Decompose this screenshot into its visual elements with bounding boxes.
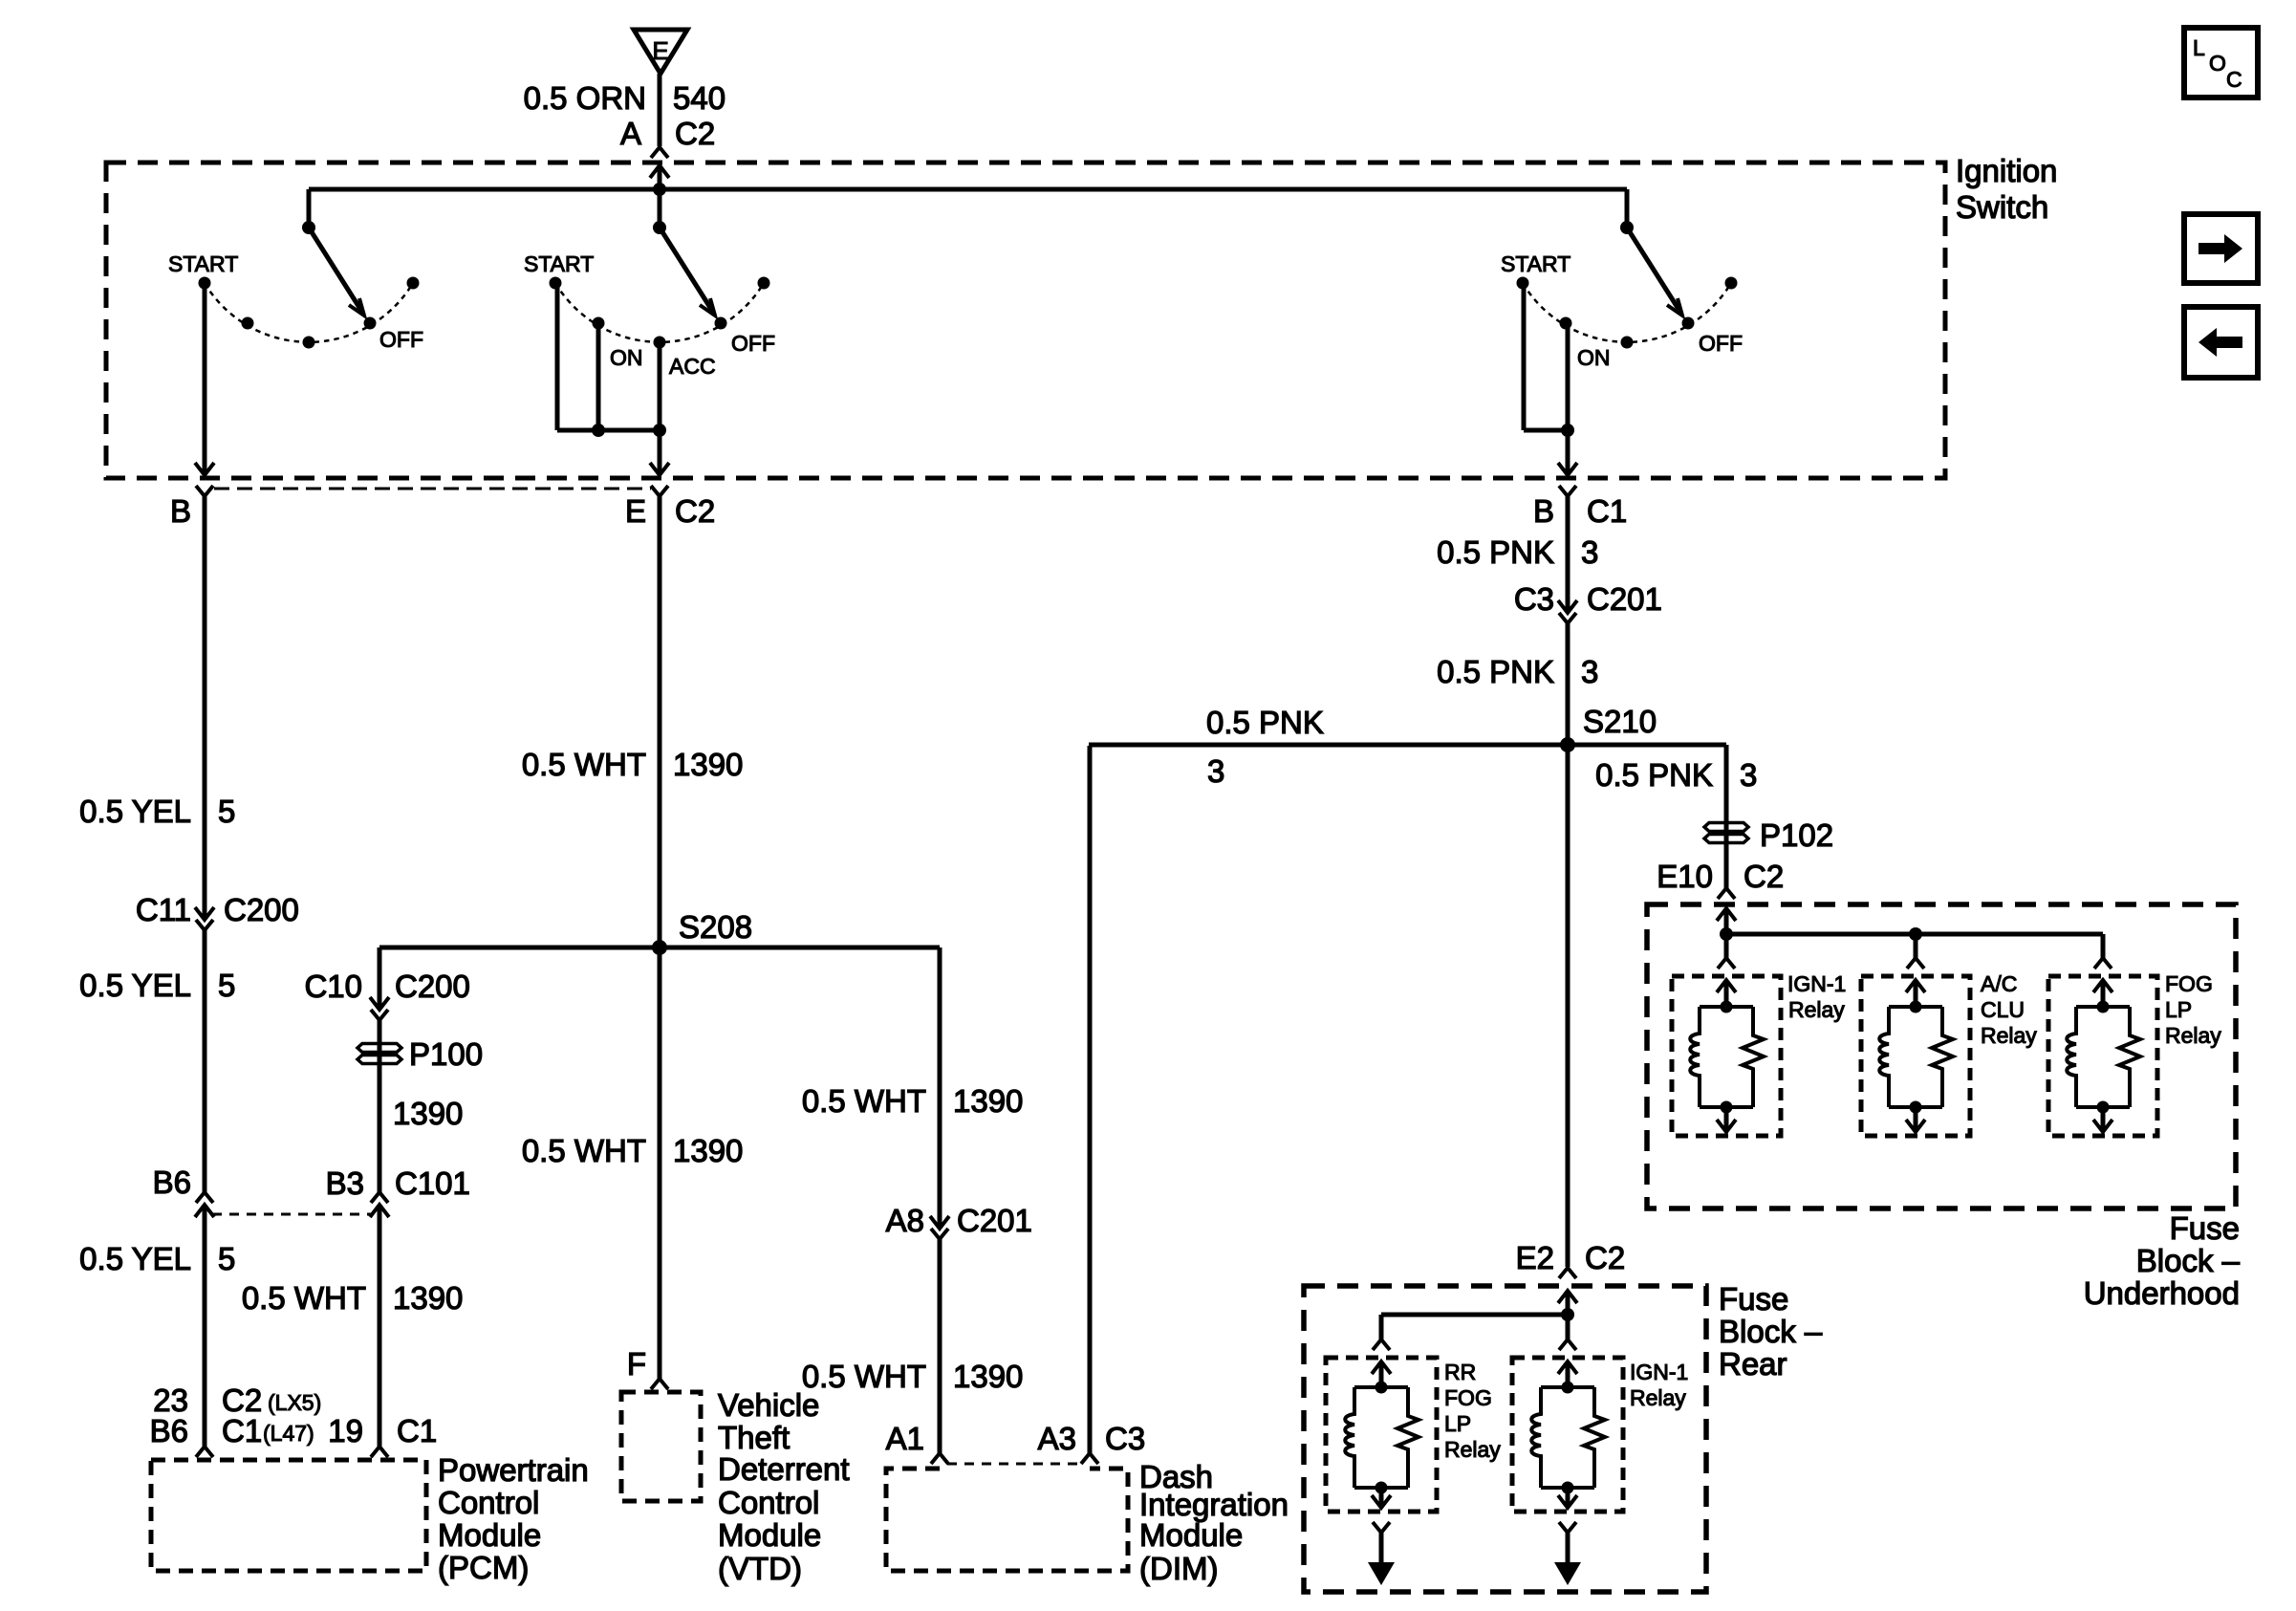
svg-text:Relay: Relay bbox=[1444, 1437, 1501, 1462]
svg-text:S210: S210 bbox=[1583, 704, 1657, 739]
svg-text:0.5 ORN: 0.5 ORN bbox=[524, 80, 646, 116]
svg-text:C1: C1 bbox=[1587, 493, 1627, 529]
svg-text:(PCM): (PCM) bbox=[438, 1550, 529, 1585]
svg-text:Relay: Relay bbox=[1981, 1023, 2037, 1048]
svg-text:19: 19 bbox=[328, 1413, 363, 1448]
svg-text:Ignition: Ignition bbox=[1956, 153, 2057, 188]
svg-text:1390: 1390 bbox=[953, 1083, 1023, 1119]
svg-text:Control: Control bbox=[438, 1485, 539, 1520]
svg-text:540: 540 bbox=[673, 80, 726, 116]
svg-text:P102: P102 bbox=[1760, 817, 1833, 853]
svg-text:IGN-1: IGN-1 bbox=[1630, 1360, 1688, 1384]
svg-text:A8: A8 bbox=[886, 1203, 924, 1238]
svg-text:C2: C2 bbox=[1585, 1240, 1625, 1275]
svg-text:LP: LP bbox=[2165, 997, 2192, 1022]
svg-text:0.5 YEL: 0.5 YEL bbox=[79, 1241, 191, 1276]
svg-text:(DIM): (DIM) bbox=[1139, 1551, 1218, 1586]
svg-text:0.5 WHT: 0.5 WHT bbox=[522, 747, 646, 782]
svg-text:3: 3 bbox=[1207, 753, 1224, 789]
svg-text:5: 5 bbox=[218, 968, 235, 1003]
svg-text:B: B bbox=[170, 493, 191, 529]
svg-text:1390: 1390 bbox=[393, 1280, 463, 1316]
svg-text:0.5 PNK: 0.5 PNK bbox=[1595, 757, 1713, 793]
svg-text:3: 3 bbox=[1740, 757, 1757, 793]
svg-text:0.5 PNK: 0.5 PNK bbox=[1437, 654, 1554, 689]
svg-text:B6: B6 bbox=[153, 1165, 191, 1200]
svg-text:IGN-1: IGN-1 bbox=[1787, 971, 1846, 996]
svg-text:Theft: Theft bbox=[718, 1420, 790, 1455]
svg-text:B6: B6 bbox=[150, 1413, 188, 1448]
svg-text:Fuse: Fuse bbox=[1719, 1281, 1788, 1317]
svg-text:Module: Module bbox=[1139, 1517, 1243, 1553]
svg-text:Module: Module bbox=[438, 1517, 541, 1553]
svg-text:Switch: Switch bbox=[1956, 189, 2048, 225]
svg-text:C2: C2 bbox=[675, 116, 715, 151]
svg-text:C2: C2 bbox=[1744, 859, 1784, 894]
svg-text:0.5 WHT: 0.5 WHT bbox=[242, 1280, 366, 1316]
svg-text:E2: E2 bbox=[1516, 1240, 1554, 1275]
svg-text:0.5 YEL: 0.5 YEL bbox=[79, 968, 191, 1003]
svg-text:F: F bbox=[627, 1346, 646, 1382]
svg-text:Relay: Relay bbox=[1630, 1385, 1686, 1410]
svg-text:C201: C201 bbox=[957, 1203, 1032, 1238]
svg-text:C201: C201 bbox=[1587, 581, 1662, 617]
svg-text:C200: C200 bbox=[224, 892, 299, 927]
svg-text:ON: ON bbox=[610, 345, 643, 370]
svg-text:E: E bbox=[625, 493, 646, 529]
svg-text:0.5 YEL: 0.5 YEL bbox=[79, 794, 191, 829]
svg-text:OFF: OFF bbox=[1699, 331, 1743, 356]
svg-text:C1: C1 bbox=[222, 1413, 262, 1448]
svg-text:1390: 1390 bbox=[673, 747, 743, 782]
svg-text:ACC: ACC bbox=[669, 354, 716, 379]
svg-text:A: A bbox=[620, 116, 641, 151]
svg-text:E10: E10 bbox=[1657, 859, 1713, 894]
svg-text:C11: C11 bbox=[136, 892, 191, 927]
svg-text:(LX5): (LX5) bbox=[268, 1390, 321, 1415]
svg-text:S208: S208 bbox=[679, 909, 752, 945]
svg-text:Relay: Relay bbox=[1788, 997, 1845, 1022]
svg-text:ON: ON bbox=[1577, 345, 1611, 370]
svg-text:0.5 WHT: 0.5 WHT bbox=[522, 1133, 646, 1168]
svg-text:FOG: FOG bbox=[1444, 1385, 1492, 1410]
svg-text:RR: RR bbox=[1444, 1360, 1476, 1384]
svg-text:3: 3 bbox=[1581, 534, 1598, 570]
svg-text:A1: A1 bbox=[886, 1421, 924, 1456]
svg-text:OFF: OFF bbox=[379, 327, 423, 352]
svg-text:(VTD): (VTD) bbox=[718, 1551, 802, 1586]
svg-text:O: O bbox=[2209, 51, 2226, 76]
svg-text:B: B bbox=[1533, 493, 1554, 529]
svg-text:C200: C200 bbox=[395, 969, 470, 1004]
svg-text:A/C: A/C bbox=[1981, 971, 2017, 996]
svg-text:START: START bbox=[1501, 251, 1570, 276]
svg-text:Deterrent: Deterrent bbox=[718, 1451, 850, 1487]
svg-text:LP: LP bbox=[1444, 1411, 1471, 1436]
svg-text:Block –: Block – bbox=[1719, 1314, 1823, 1349]
svg-text:START: START bbox=[168, 251, 238, 276]
svg-text:Fuse: Fuse bbox=[2170, 1210, 2240, 1246]
svg-text:0.5 WHT: 0.5 WHT bbox=[802, 1083, 926, 1119]
svg-text:Rear: Rear bbox=[1719, 1346, 1787, 1382]
svg-text:Relay: Relay bbox=[2165, 1023, 2221, 1048]
svg-text:0.5 PNK: 0.5 PNK bbox=[1437, 534, 1554, 570]
svg-text:0.5 WHT: 0.5 WHT bbox=[802, 1359, 926, 1394]
svg-text:A3: A3 bbox=[1038, 1421, 1076, 1456]
svg-text:C3: C3 bbox=[1514, 581, 1554, 617]
svg-text:1390: 1390 bbox=[673, 1133, 743, 1168]
svg-text:C3: C3 bbox=[1105, 1421, 1145, 1456]
svg-text:P100: P100 bbox=[409, 1036, 483, 1072]
svg-text:B3: B3 bbox=[326, 1165, 364, 1201]
svg-text:0.5 PNK: 0.5 PNK bbox=[1206, 705, 1324, 740]
svg-text:3: 3 bbox=[1581, 654, 1598, 689]
svg-text:5: 5 bbox=[218, 794, 235, 829]
svg-text:Control: Control bbox=[718, 1485, 819, 1520]
svg-text:E: E bbox=[652, 36, 668, 65]
svg-text:Block –: Block – bbox=[2136, 1243, 2241, 1278]
svg-text:Powertrain: Powertrain bbox=[438, 1452, 589, 1488]
svg-text:FOG: FOG bbox=[2165, 971, 2213, 996]
svg-text:Underhood: Underhood bbox=[2084, 1275, 2240, 1311]
svg-text:(L47): (L47) bbox=[263, 1421, 314, 1446]
svg-text:C2: C2 bbox=[675, 493, 715, 529]
svg-text:1390: 1390 bbox=[953, 1359, 1023, 1394]
svg-text:START: START bbox=[524, 251, 594, 276]
svg-text:OFF: OFF bbox=[731, 331, 775, 356]
svg-text:Module: Module bbox=[718, 1517, 821, 1553]
svg-text:5: 5 bbox=[218, 1241, 235, 1276]
svg-text:C: C bbox=[2226, 67, 2242, 92]
svg-text:C101: C101 bbox=[395, 1165, 470, 1201]
svg-text:C1: C1 bbox=[397, 1413, 437, 1448]
svg-text:C10: C10 bbox=[304, 969, 362, 1004]
svg-text:1390: 1390 bbox=[393, 1096, 463, 1131]
svg-text:L: L bbox=[2193, 35, 2205, 60]
svg-text:CLU: CLU bbox=[1981, 997, 2025, 1022]
